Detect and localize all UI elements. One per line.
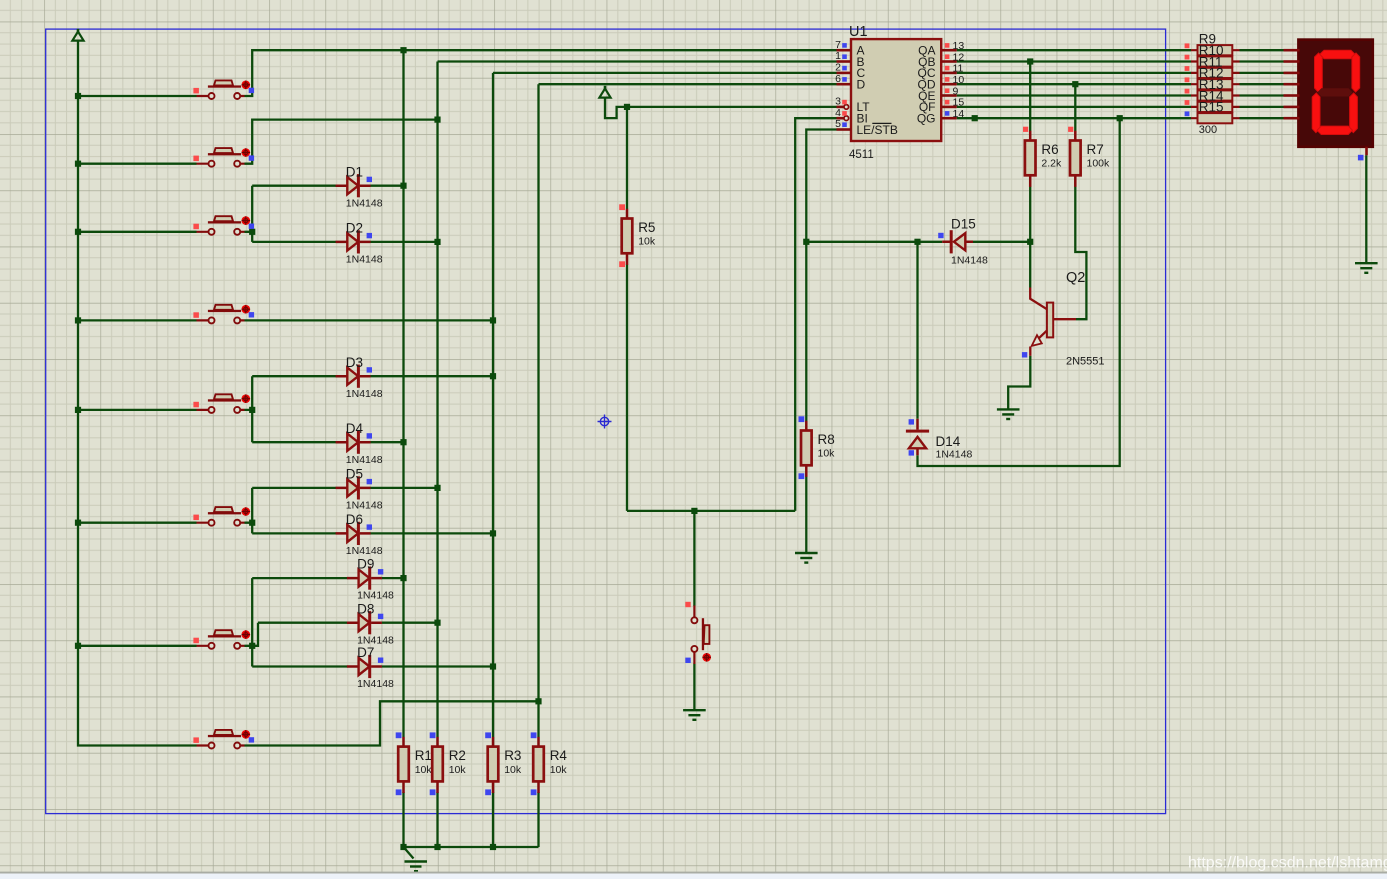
wire resistor to display: [1240, 72, 1284, 74]
svg-text:1N4148: 1N4148: [346, 388, 383, 400]
svg-text:2: 2: [835, 62, 841, 74]
resistor R8 10k: [799, 416, 836, 479]
junction D9-busA: [400, 575, 406, 581]
junction bus-A / A line: [400, 47, 406, 53]
svg-text:D1: D1: [346, 164, 363, 179]
pin 3 (LT) inverted: [837, 106, 844, 109]
wire D7 line: [252, 665, 493, 667]
wire bottom ground bus: [404, 846, 539, 848]
svg-text:7: 7: [835, 39, 841, 51]
wire D1 line: [252, 185, 403, 187]
push button SW2: [193, 148, 254, 167]
wire rail to SW1: [78, 95, 197, 97]
junction SW6: [249, 520, 255, 526]
resistor network R9-R15 (300R): [1185, 32, 1240, 136]
wire left VCC rail: [78, 41, 197, 746]
wire rail to SW2: [78, 163, 197, 165]
svg-text:D6: D6: [346, 512, 363, 527]
svg-text:R15: R15: [1199, 100, 1224, 115]
wire bus C top to pin C: [493, 72, 837, 74]
pin 1 (B): [837, 60, 852, 63]
svg-text:1N4148: 1N4148: [357, 678, 394, 690]
wire D8 line: [258, 622, 438, 624]
junction middle button: [691, 508, 697, 514]
wire SW8 to bus D: [245, 701, 539, 745]
svg-text:1N4148: 1N4148: [346, 545, 383, 557]
pin 6 (D): [837, 83, 852, 86]
svg-text:D14: D14: [936, 434, 961, 449]
wire resistor to display: [1240, 83, 1284, 85]
segment b (lit): [1352, 53, 1360, 92]
svg-text:10k: 10k: [449, 764, 467, 776]
svg-text:9: 9: [953, 85, 959, 97]
resistor R12 300: [1191, 83, 1240, 85]
svg-text:https://blog.csdn.net/lshtamg: https://blog.csdn.net/lshtamg: [1188, 855, 1387, 872]
node rail-btn4: [75, 317, 81, 323]
wire rail to SW6: [78, 522, 197, 524]
wire rail to SW7: [78, 645, 197, 647]
svg-text:D: D: [857, 78, 866, 92]
svg-text:D8: D8: [357, 601, 374, 616]
node rail-btn5: [75, 407, 81, 413]
svg-text:15: 15: [953, 97, 965, 109]
svg-text:D2: D2: [346, 221, 363, 236]
pin 14 (QG): [941, 117, 957, 120]
wire SW1 to pin A line: [245, 50, 837, 96]
resistor R7 100k: [1068, 127, 1110, 187]
svg-text:U1: U1: [849, 24, 868, 40]
wire bus B top to pin B: [438, 60, 837, 62]
svg-text:D3: D3: [346, 355, 363, 370]
pin 11 (QC): [941, 72, 957, 75]
svg-text:R3: R3: [504, 748, 521, 763]
wire gnd bus to ground: [404, 847, 414, 859]
push button SW3: [193, 216, 254, 235]
junction LE-D15: [803, 239, 809, 245]
wire rail to SW4: [78, 319, 197, 321]
origin marker: [598, 415, 612, 429]
wire R7 column to Q2 base: [1075, 84, 1086, 319]
junction D1-busA: [400, 183, 406, 189]
svg-text:2N5551: 2N5551: [1066, 356, 1105, 368]
segment e (lit): [1312, 93, 1320, 133]
resistor R9 300: [1191, 49, 1240, 51]
push button SW7: [193, 630, 250, 649]
svg-text:1N4148: 1N4148: [346, 454, 383, 466]
svg-text:10k: 10k: [504, 764, 522, 776]
wire rail to SW3: [78, 231, 197, 233]
diode D15 1N4148: [938, 217, 988, 267]
diode D7 1N4148: [347, 645, 394, 690]
wire rail to SW5: [78, 409, 197, 411]
push button SW5: [193, 394, 250, 413]
node rail-btn6: [75, 520, 81, 526]
resistor R4 10k: [531, 732, 568, 795]
wire R5 column: [626, 107, 628, 511]
wire bus B vertical: [436, 62, 438, 738]
transistor Q2 2N5551: [1022, 270, 1105, 368]
svg-text:10: 10: [953, 74, 965, 86]
wire QC to resistor: [957, 72, 1191, 74]
svg-text:1N4148: 1N4148: [346, 197, 383, 209]
segment d (lit): [1317, 126, 1353, 134]
ground (R8): [795, 553, 818, 563]
svg-text:5: 5: [835, 118, 841, 130]
diode D4 1N4148: [336, 421, 383, 466]
7-segment display (showing 0): [1284, 40, 1373, 156]
wire D14 column / bottom rail to QG: [918, 118, 1120, 466]
pin 2 (C): [837, 72, 852, 75]
svg-text:4: 4: [835, 107, 841, 119]
pin 10 (QD): [941, 83, 957, 86]
junction LT-R5: [624, 104, 630, 110]
junction D6-busC: [490, 530, 496, 536]
svg-text:100k: 100k: [1087, 158, 1111, 170]
push button SW6: [193, 507, 250, 526]
ground (bottom left): [405, 862, 428, 872]
junction D8-busB: [434, 620, 440, 626]
junction D15-R6: [1027, 239, 1033, 245]
wire D15 line: [806, 241, 1030, 243]
junction D3-busC: [490, 373, 496, 379]
node rail-btn1: [75, 93, 81, 99]
wire resistor to display: [1240, 60, 1284, 62]
power symbol VCC (left rail): [77, 29, 80, 33]
svg-text:10k: 10k: [550, 764, 568, 776]
wire QE to resistor: [957, 94, 1191, 96]
diode D8 1N4148: [347, 601, 394, 646]
svg-text:R7: R7: [1087, 142, 1104, 157]
junction QG-rail: [1117, 115, 1123, 121]
segment f (lit): [1315, 53, 1323, 92]
sheet border frame: [46, 29, 1166, 814]
wire D6 line: [252, 532, 493, 534]
junction R1-gnd bus: [400, 844, 406, 850]
push button SW8: [193, 730, 254, 749]
power symbol VCC (LT): [604, 86, 607, 90]
diode D1 1N4148: [336, 164, 383, 209]
node rail-btn7: [75, 643, 81, 649]
wire resistor to display: [1240, 94, 1284, 96]
ground (display): [1355, 263, 1378, 273]
resistor R14 300: [1191, 106, 1240, 108]
svg-text:Q2: Q2: [1066, 270, 1085, 286]
junction SW5: [249, 407, 255, 413]
junction D7-busC: [490, 663, 496, 669]
node QG segment join: [972, 115, 978, 121]
resistor R1 10k: [396, 732, 433, 795]
diode D3 1N4148: [336, 355, 383, 400]
diode D14 1N4148: [906, 419, 973, 461]
svg-text:2.2k: 2.2k: [1041, 158, 1062, 170]
segment g (dark): [1317, 88, 1352, 96]
junction SW4-busC: [490, 317, 496, 323]
svg-text:R1: R1: [415, 748, 432, 763]
diode D9 1N4148: [347, 557, 394, 602]
wire middle button to ground: [693, 664, 695, 710]
wire bus D vertical: [537, 84, 539, 737]
junction R3-gnd bus: [490, 844, 496, 850]
resistor R15 300: [1191, 117, 1240, 119]
junction SW2-busB: [434, 117, 440, 123]
wire QD to resistor: [957, 83, 1191, 85]
wire R8 to ground: [805, 477, 807, 553]
resistor R13 300: [1191, 94, 1240, 96]
pin 7 (A): [837, 49, 852, 52]
svg-text:3: 3: [835, 96, 841, 108]
svg-text:300: 300: [1199, 124, 1217, 136]
pin 13 (QA): [941, 49, 957, 52]
svg-text:10k: 10k: [638, 236, 656, 248]
ground (middle button): [683, 710, 706, 720]
junction R2-gnd bus: [434, 844, 440, 850]
svg-text:1N4148: 1N4148: [346, 254, 383, 266]
svg-text:LE/STB: LE/STB: [857, 123, 898, 137]
svg-text:10k: 10k: [818, 448, 836, 460]
push button SW1: [193, 80, 254, 99]
wire to middle button: [693, 511, 695, 606]
wire resistor to display: [1240, 106, 1284, 108]
wire QB to resistor: [957, 60, 1191, 62]
pin 9 (QE): [941, 94, 957, 97]
junction QB-R6: [1027, 58, 1033, 64]
window bottom edge: [0, 872, 1387, 874]
wire SW6 to D5/D6: [245, 488, 253, 534]
wire QG to resistor: [957, 117, 1191, 119]
junction QD-R7: [1072, 81, 1078, 87]
svg-text:QG: QG: [917, 112, 936, 126]
junction SW7: [249, 643, 255, 649]
svg-text:12: 12: [953, 51, 965, 63]
wire R6 column: [1029, 62, 1031, 242]
svg-text:D9: D9: [357, 557, 374, 572]
wire BI pin to column: [795, 118, 836, 511]
segment a (lit): [1320, 50, 1356, 59]
pin 15 (QF): [941, 106, 957, 109]
svg-text:4511: 4511: [849, 149, 874, 161]
diode D2 1N4148: [336, 221, 383, 266]
svg-text:R8: R8: [818, 432, 835, 447]
wire R1-R4 to ground bus: [404, 792, 539, 847]
junction D15-D14: [914, 239, 920, 245]
svg-text:R6: R6: [1041, 142, 1058, 157]
wire SW4 to bus C: [245, 319, 494, 321]
pin 5 (LE/STB): [837, 128, 852, 131]
svg-text:11: 11: [953, 63, 964, 75]
wire VCC to LT pin: [605, 98, 837, 118]
svg-text:14: 14: [953, 108, 965, 120]
junction D5-busB: [434, 485, 440, 491]
svg-text:1N4148: 1N4148: [951, 255, 988, 267]
wire SW5 to D3/D4: [245, 376, 253, 442]
junction D4-busA: [400, 439, 406, 445]
op-amp U1 4511 BCD-to-7seg latch/decoder: [835, 24, 964, 161]
wire SW7 to D7/D8/D9: [245, 578, 259, 666]
resistor R2 10k: [430, 732, 467, 795]
wire bus D top to pin D: [539, 83, 837, 85]
wire resistor to display: [1240, 117, 1284, 119]
wire D4 line: [252, 441, 403, 443]
svg-text:R4: R4: [550, 748, 568, 763]
svg-text:1N4148: 1N4148: [357, 590, 394, 602]
wire R6 to Q2 collector: [1029, 242, 1031, 288]
svg-text:13: 13: [953, 40, 965, 52]
svg-text:D4: D4: [346, 421, 364, 436]
wire QA to resistor: [957, 49, 1191, 51]
node rail-btn3: [75, 229, 81, 235]
segment c (lit): [1350, 93, 1358, 133]
wire SW3 to D1/D2: [245, 186, 253, 242]
pin 4 (BI) inverted: [837, 117, 844, 120]
svg-text:R2: R2: [449, 748, 466, 763]
diode D5 1N4148: [336, 467, 383, 512]
svg-text:1N4148: 1N4148: [346, 500, 383, 512]
wire D3 line: [252, 375, 493, 377]
wire R5 bottom to BI column: [627, 510, 795, 512]
push button SW9 (vertical): [685, 602, 711, 664]
wire Q2 emitter to ground: [1008, 356, 1030, 409]
junction D2-busB: [434, 239, 440, 245]
svg-text:R5: R5: [638, 220, 655, 235]
junction SW8-busD: [535, 698, 541, 704]
push button SW4: [193, 305, 254, 324]
wire QF to resistor: [957, 106, 1191, 108]
node rail-btn2: [75, 161, 81, 167]
wire bus C vertical: [492, 73, 494, 737]
junction SW3: [249, 229, 255, 235]
ground (Q2): [997, 409, 1020, 419]
svg-text:1N4148: 1N4148: [936, 449, 973, 461]
wire bus A vertical: [402, 50, 404, 737]
diode D6 1N4148: [336, 512, 383, 557]
wire SW2 to bus B: [245, 120, 438, 164]
wire D2 line: [252, 241, 437, 243]
resistor R5 10k: [619, 204, 656, 267]
resistor R3 10k: [485, 732, 522, 795]
svg-text:D15: D15: [951, 217, 976, 232]
svg-text:6: 6: [835, 73, 841, 85]
svg-text:10k: 10k: [415, 764, 433, 776]
resistor R11 300: [1191, 72, 1240, 74]
wire D5 line: [252, 487, 437, 489]
svg-text:D5: D5: [346, 467, 363, 482]
svg-text:1: 1: [835, 50, 841, 62]
svg-text:D7: D7: [357, 645, 374, 660]
wire D9 line: [252, 577, 403, 579]
resistor R10 300: [1191, 60, 1240, 62]
wire LE pin down to R8: [806, 130, 836, 422]
resistor R6 2.2k: [1023, 127, 1062, 187]
pin 12 (QB): [941, 60, 957, 63]
wire display common to ground: [1365, 155, 1367, 263]
wire resistor to display: [1240, 49, 1284, 51]
